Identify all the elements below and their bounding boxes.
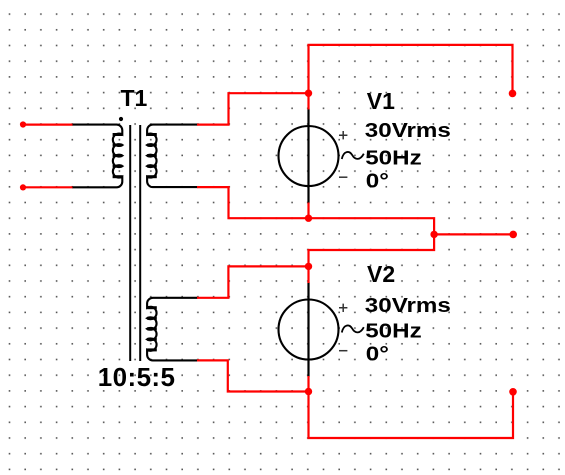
svg-text:10:5:5: 10:5:5: [98, 362, 176, 392]
wire mid rail: [309, 218, 514, 234]
wire sec2 top to V2: [197, 266, 309, 297]
V2 value 50Hz: [365, 319, 421, 342]
junction V2 top: [305, 263, 312, 270]
V2 pin leads (vertical chord, pin 1 top / pin 2 bottom): [307, 282, 309, 377]
svg-text:50Hz: 50Hz: [365, 146, 421, 169]
wire V1 bottom pin: [307, 203, 309, 219]
red wires: [23, 45, 513, 438]
wire left primary bottom: [23, 186, 73, 188]
wire bottom rail: [309, 392, 514, 439]
junction V1 bottom: [305, 215, 312, 222]
svg-text:T1: T1: [121, 85, 148, 111]
V2 sine symbol: [342, 325, 364, 332]
V2 value 0deg: [366, 343, 389, 366]
wire mid return: [309, 234, 435, 266]
svg-text:30Vrms: 30Vrms: [365, 119, 451, 142]
V2 plus polarity mark: [339, 304, 347, 312]
wire sec2 bottom to V2 bottom: [197, 360, 309, 391]
V1 pin leads (vertical chord, pin 1 top / pin 2 bottom): [307, 109, 309, 204]
wire left primary top: [23, 123, 73, 125]
ac voltage source V1: [279, 109, 364, 204]
V2 value 30Vrms: [365, 294, 451, 317]
node terminal right mid: [509, 231, 517, 239]
svg-text:0°: 0°: [366, 170, 389, 193]
V1 value 50Hz: [365, 146, 421, 169]
svg-text:30Vrms: 30Vrms: [365, 294, 451, 317]
transformer T1 primary winding: [72, 125, 122, 188]
node terminal left bottom: [20, 184, 26, 190]
node terminal right bottom: [509, 388, 517, 396]
transformer T1 core line left: [129, 125, 131, 361]
svg-text:0°: 0°: [366, 343, 389, 366]
junction V1 top: [305, 90, 312, 97]
node terminal right top: [509, 90, 517, 98]
ac voltage source V2: [279, 282, 364, 377]
V1 plus polarity mark: [339, 131, 347, 139]
node terminal left top: [20, 121, 26, 127]
V1 value 30Vrms: [365, 119, 451, 142]
svg-text:V2: V2: [367, 261, 395, 287]
V2 minus polarity mark: [339, 350, 347, 352]
op-amp-circle body of source V1: [279, 126, 339, 186]
junction V2 bottom: [305, 388, 312, 395]
wire V1 top pin: [307, 93, 309, 109]
V1 minus polarity mark: [339, 176, 347, 178]
wire V2 bottom pin: [307, 376, 309, 392]
transformer T1 secondary winding bottom: [147, 298, 197, 361]
transformer T1 secondary winding top: [147, 125, 197, 188]
svg-text:50Hz: 50Hz: [365, 319, 421, 342]
V1 value 0deg: [366, 170, 389, 193]
wire top rail: [309, 45, 513, 94]
junction mid: [430, 231, 437, 238]
transformer T1 core line right: [139, 125, 141, 361]
V1 sine symbol: [342, 152, 364, 159]
svg-text:V1: V1: [367, 88, 395, 114]
transformer T1 phase dot: [119, 117, 123, 121]
wire sec1 top to V1: [197, 93, 309, 124]
wire sec1 bottom to V1 bottom: [197, 187, 309, 218]
circle body of source V2: [279, 300, 339, 360]
wire V2 top pin: [307, 266, 309, 283]
